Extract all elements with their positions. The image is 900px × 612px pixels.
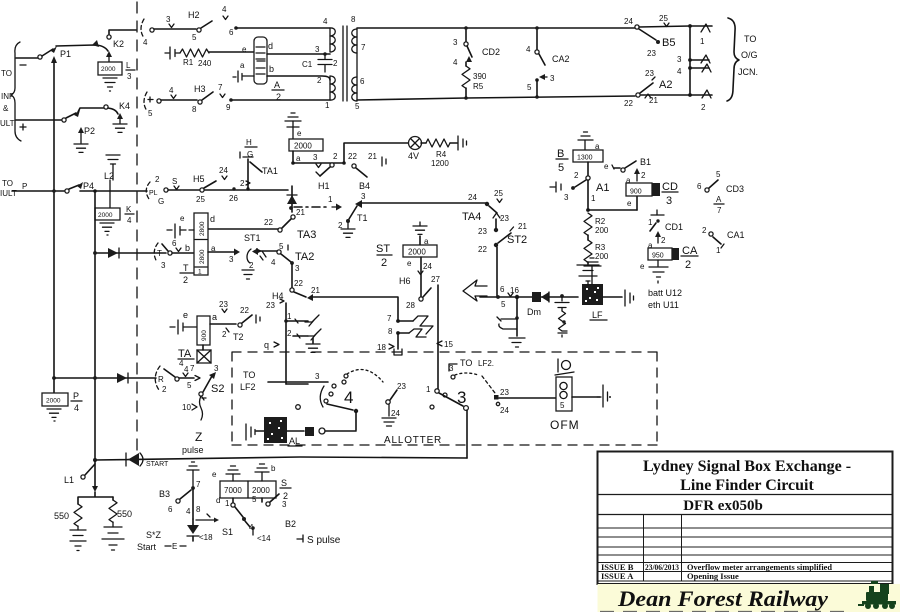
wire H2 row — [154, 28, 196, 30]
node 23 tick — [266, 299, 288, 384]
svg-text:24: 24 — [391, 409, 400, 418]
svg-text:7: 7 — [361, 43, 366, 52]
selector 4 — [296, 370, 383, 414]
svg-text:5: 5 — [192, 33, 197, 42]
resistor R4 1200 — [421, 139, 457, 168]
capacitor H1 feed — [165, 47, 180, 59]
svg-text:R4: R4 — [436, 150, 447, 159]
svg-text:H2: H2 — [188, 10, 200, 20]
svg-text:26: 26 — [229, 194, 238, 203]
wire H6 down — [437, 285, 439, 389]
svg-text:6: 6 — [172, 239, 177, 248]
contact B1 — [614, 157, 651, 172]
svg-text:a: a — [212, 312, 217, 322]
contact TA2 — [252, 242, 314, 273]
svg-text:23: 23 — [219, 300, 228, 309]
wire spring row 1 — [286, 312, 319, 326]
svg-text:240: 240 — [198, 59, 212, 68]
svg-text:4: 4 — [143, 38, 148, 47]
svg-text:5: 5 — [355, 102, 360, 111]
wire to K2 — [56, 45, 108, 51]
wire selector3 bank to 23 — [482, 376, 509, 415]
svg-text:7: 7 — [387, 314, 392, 323]
svg-text:B5: B5 — [662, 37, 675, 49]
svg-text:eth U11: eth U11 — [648, 300, 679, 310]
contact S1 below 7000 — [216, 496, 254, 532]
resistor 550 left — [54, 492, 113, 551]
svg-text:21: 21 — [296, 208, 305, 217]
svg-text:Lydney Signal Box Exchange -: Lydney Signal Box Exchange - — [643, 458, 851, 475]
svg-text:1: 1 — [591, 194, 596, 203]
contact L1 — [64, 461, 98, 492]
relay coils 7000 2000 — [220, 481, 276, 498]
wire bottom to transformer — [232, 99, 330, 101]
node H/G — [240, 138, 257, 159]
svg-text:7: 7 — [196, 480, 201, 489]
svg-text:6: 6 — [697, 182, 702, 191]
wire b row into T/2 — [172, 252, 194, 254]
svg-text:2: 2 — [381, 257, 387, 269]
svg-text:3: 3 — [550, 74, 555, 83]
contact B2 below 2000 — [251, 494, 296, 543]
svg-text:4: 4 — [222, 5, 227, 14]
svg-text:T: T — [183, 263, 189, 273]
svg-text:<14: <14 — [257, 534, 271, 543]
node L2 — [104, 155, 120, 181]
wire ST2 down — [497, 247, 519, 296]
wire H3 row — [161, 99, 197, 101]
contact H6 — [399, 257, 440, 310]
svg-text:CD2: CD2 — [482, 47, 500, 57]
svg-text:25: 25 — [196, 195, 205, 204]
wire S2 to Z — [182, 396, 203, 420]
svg-text:3: 3 — [449, 364, 454, 373]
svg-text:24: 24 — [219, 166, 228, 175]
svg-text:b: b — [271, 464, 276, 473]
svg-text:1: 1 — [287, 312, 292, 321]
svg-text:CD: CD — [662, 181, 678, 193]
svg-text:2: 2 — [183, 275, 188, 285]
svg-text:2000: 2000 — [408, 248, 426, 257]
node TO INF & ULT bracket — [0, 42, 26, 141]
svg-text:3: 3 — [453, 38, 458, 47]
selector 3 — [426, 358, 478, 410]
svg-text:K: K — [126, 205, 132, 214]
contact H2 — [166, 5, 238, 42]
wire top to transformer — [237, 27, 330, 29]
svg-text:TA3: TA3 — [297, 229, 316, 241]
relay coil B/5 1300 — [573, 150, 614, 171]
allotter dashed box — [232, 352, 657, 445]
relay coil CD/3 900 — [626, 168, 660, 210]
ground above B/5 coil — [578, 132, 600, 151]
wire O/G bus — [688, 24, 692, 97]
svg-text:CD3: CD3 — [726, 184, 744, 194]
svg-text:b: b — [185, 243, 190, 253]
svg-text:E: E — [172, 542, 177, 551]
svg-text:G: G — [247, 150, 253, 159]
diode y378 — [117, 373, 128, 383]
svg-text:22: 22 — [264, 218, 273, 227]
relay coil ST/2 2000 — [403, 245, 437, 268]
svg-text:5: 5 — [560, 401, 565, 410]
svg-text:7: 7 — [218, 83, 223, 92]
svg-text:5: 5 — [252, 495, 257, 504]
svg-text:2: 2 — [240, 179, 245, 188]
wire A1 down — [586, 180, 637, 212]
svg-text:e: e — [183, 310, 188, 320]
wire H4 row to corner — [311, 297, 398, 321]
svg-text:1200: 1200 — [431, 159, 449, 168]
svg-text:390: 390 — [473, 72, 487, 81]
svg-text:TO: TO — [744, 34, 756, 44]
contact T/3 — [154, 239, 190, 270]
svg-text:8: 8 — [192, 105, 197, 114]
svg-text:LF: LF — [592, 310, 603, 320]
svg-text:e: e — [180, 214, 185, 223]
contact B5 — [624, 14, 675, 58]
svg-text:9: 9 — [226, 103, 231, 112]
contact P1 — [38, 46, 71, 59]
svg-text:21: 21 — [311, 286, 320, 295]
wire H5 row — [168, 187, 288, 190]
svg-text:T2: T2 — [233, 332, 244, 342]
node CA/2 label — [681, 245, 698, 271]
svg-text:TO: TO — [460, 358, 472, 368]
svg-text:2000: 2000 — [294, 142, 312, 151]
svg-text:S2: S2 — [211, 383, 224, 395]
svg-text:P: P — [22, 182, 27, 191]
wire a row from T/2 — [208, 244, 240, 264]
svg-text:L1: L1 — [64, 475, 74, 485]
svg-text:1: 1 — [325, 101, 330, 110]
svg-text:B4: B4 — [359, 181, 370, 191]
contact PL G arc — [146, 175, 168, 206]
svg-text:CA: CA — [682, 245, 698, 257]
svg-text:1: 1 — [225, 499, 230, 508]
svg-text:2000: 2000 — [101, 66, 116, 73]
svg-text:22: 22 — [348, 152, 357, 161]
svg-text:H3: H3 — [194, 84, 206, 94]
svg-text:23: 23 — [397, 382, 406, 391]
wire page divider dashed — [136, 2, 138, 450]
svg-text:e: e — [212, 470, 217, 479]
svg-text:2: 2 — [249, 261, 254, 270]
svg-text:3: 3 — [666, 195, 672, 207]
diode S start — [187, 519, 213, 542]
ground stem P2 — [74, 127, 88, 152]
svg-text:23: 23 — [500, 388, 509, 397]
svg-text:5: 5 — [148, 109, 153, 118]
node Z pulse — [182, 430, 204, 455]
battery ground under R3 — [577, 265, 599, 285]
relay coil TA 900 — [170, 310, 217, 345]
relay LF — [582, 284, 607, 320]
svg-text:3: 3 — [282, 500, 287, 509]
svg-text:900: 900 — [201, 330, 208, 341]
ground under K2 coil — [103, 78, 117, 91]
svg-text:550: 550 — [117, 509, 132, 519]
svg-text:CA2: CA2 — [552, 54, 570, 64]
svg-text:8: 8 — [351, 15, 356, 24]
relay T/2 — [180, 213, 215, 276]
capacitor A/2 a — [233, 71, 254, 82]
contact P4 — [65, 181, 94, 193]
wire TA2 down to H4 — [292, 264, 303, 288]
svg-text:H5: H5 — [193, 174, 205, 184]
svg-text:3: 3 — [166, 15, 171, 24]
node S/2 label — [280, 478, 291, 501]
svg-text:7: 7 — [717, 206, 722, 215]
svg-text:d: d — [268, 41, 273, 51]
svg-text:2: 2 — [574, 171, 579, 180]
svg-text:a: a — [240, 61, 245, 70]
wire P2 to K4 — [78, 108, 104, 112]
contact H5 — [172, 166, 250, 204]
contact TA4 — [462, 189, 509, 223]
svg-text:5: 5 — [501, 300, 506, 309]
wire spring 8 row — [388, 327, 426, 337]
meter OFM — [550, 377, 580, 432]
svg-text:S: S — [281, 478, 287, 488]
contact K4 — [104, 101, 130, 132]
contact TA1 — [243, 157, 278, 189]
svg-text:A: A — [716, 195, 722, 204]
thermal TA element — [178, 345, 211, 374]
svg-text:2: 2 — [702, 226, 707, 235]
svg-text:K4: K4 — [119, 101, 130, 111]
wire P2 row — [16, 119, 62, 121]
wire spring row 2 — [287, 329, 321, 352]
svg-text:28: 28 — [406, 301, 415, 310]
svg-text:21: 21 — [518, 222, 527, 231]
node K/4 label — [125, 205, 134, 225]
svg-text:15: 15 — [444, 340, 453, 349]
svg-text:e: e — [604, 162, 609, 171]
svg-text:S pulse: S pulse — [307, 535, 341, 546]
svg-text:2: 2 — [155, 175, 160, 184]
jack arrow symbol — [463, 280, 487, 301]
svg-text:4: 4 — [186, 507, 191, 516]
node S*Z start — [137, 530, 186, 552]
svg-text:2: 2 — [661, 236, 666, 245]
svg-text:&: & — [3, 104, 9, 113]
svg-text:3: 3 — [214, 364, 219, 373]
svg-text:3: 3 — [229, 255, 234, 264]
svg-text:ALLOTTER: ALLOTTER — [384, 435, 442, 446]
svg-text:R3: R3 — [595, 243, 606, 252]
svg-text:1: 1 — [328, 195, 333, 204]
svg-text:24: 24 — [423, 262, 432, 271]
svg-text:22: 22 — [478, 245, 487, 254]
wire d row T/2 to TA3 — [208, 228, 278, 230]
contact ST1 lower — [242, 248, 266, 279]
svg-text:e: e — [297, 129, 302, 138]
svg-text:P1: P1 — [60, 49, 71, 59]
wire to selector4 — [286, 383, 308, 385]
wire H/G coil stem — [291, 151, 346, 168]
wire d row to C1 — [267, 52, 330, 56]
wire dash to T1 — [289, 195, 342, 211]
svg-text:INF: INF — [1, 92, 14, 101]
svg-text:5: 5 — [558, 162, 564, 174]
svg-text:21: 21 — [368, 152, 377, 161]
svg-text:23/06/2013: 23/06/2013 — [645, 562, 679, 572]
svg-text:AL: AL — [289, 436, 300, 446]
wire meter row — [480, 293, 578, 309]
node 15 — [437, 340, 453, 349]
svg-text:1: 1 — [700, 37, 705, 46]
svg-text:pulse: pulse — [182, 445, 204, 455]
node A/2 label — [272, 80, 284, 102]
svg-text:e: e — [627, 199, 632, 208]
svg-text:P4: P4 — [83, 181, 94, 191]
svg-text:L2: L2 — [104, 171, 114, 181]
svg-text:27: 27 — [431, 275, 440, 284]
node S pulse — [297, 535, 341, 546]
svg-text:2: 2 — [685, 259, 691, 271]
svg-text:2: 2 — [317, 76, 322, 85]
contact CD2 — [453, 30, 500, 67]
svg-text:23: 23 — [645, 69, 654, 78]
svg-text:b: b — [269, 64, 274, 74]
svg-text:B3: B3 — [159, 489, 170, 499]
svg-text:22: 22 — [294, 279, 303, 288]
wire left vertical bus with arrow — [51, 56, 57, 393]
svg-text:23: 23 — [478, 227, 487, 236]
svg-text:B2: B2 — [285, 519, 296, 529]
resistor R5 390 — [462, 62, 487, 98]
svg-text:16: 16 — [510, 286, 519, 295]
svg-text:24: 24 — [468, 193, 477, 202]
svg-text:23: 23 — [500, 214, 509, 223]
svg-text:900: 900 — [630, 189, 642, 196]
contact A1 — [550, 162, 609, 202]
banner Dean Forest Railway — [598, 584, 900, 612]
node L/3 — [126, 61, 135, 81]
svg-text:10: 10 — [182, 403, 191, 412]
battery after R4 — [458, 136, 467, 150]
relay coil K/4 2000 — [95, 180, 120, 235]
node LO — [555, 359, 574, 375]
svg-text:ISSUE A: ISSUE A — [601, 571, 634, 581]
svg-text:ST: ST — [376, 243, 390, 255]
svg-text:950: 950 — [652, 253, 664, 260]
svg-text:2000: 2000 — [252, 486, 270, 495]
svg-text:8: 8 — [388, 327, 393, 336]
svg-text:CA1: CA1 — [727, 230, 745, 240]
svg-text:A1: A1 — [596, 182, 609, 194]
node T/2 label — [180, 263, 193, 285]
svg-text:2: 2 — [333, 59, 338, 68]
contact S2 — [199, 364, 225, 400]
svg-text:S*Z: S*Z — [146, 530, 162, 540]
svg-text:6: 6 — [360, 77, 365, 86]
svg-text:ULT: ULT — [0, 119, 15, 128]
svg-text:23: 23 — [647, 49, 656, 58]
svg-text:23: 23 — [266, 301, 275, 310]
svg-text:B1: B1 — [640, 157, 651, 167]
svg-text:d: d — [210, 214, 215, 224]
transformer core — [343, 26, 347, 101]
svg-text:200: 200 — [595, 252, 609, 261]
contact B3 — [159, 462, 201, 514]
svg-text:3: 3 — [295, 264, 300, 273]
svg-text:TA2: TA2 — [295, 251, 314, 263]
contact H2 arc — [141, 19, 154, 47]
svg-text:<18: <18 — [199, 533, 213, 542]
svg-text:Opening Issue: Opening Issue — [687, 571, 739, 581]
transformer T primary — [315, 17, 335, 110]
svg-text:2800: 2800 — [199, 249, 206, 264]
svg-text:4: 4 — [169, 86, 174, 95]
wire START row — [93, 457, 467, 462]
svg-text:3: 3 — [315, 372, 320, 381]
battery 550 right — [102, 497, 132, 550]
contact R/2 arc — [155, 359, 200, 394]
svg-text:8: 8 — [196, 505, 201, 514]
contact selector4 23 — [382, 382, 406, 426]
diode START — [126, 453, 169, 468]
contact B4 — [348, 152, 386, 191]
svg-text:ST1: ST1 — [244, 233, 261, 243]
svg-text:2: 2 — [333, 152, 338, 161]
title block — [598, 452, 894, 585]
svg-text:A2: A2 — [659, 79, 672, 91]
svg-text:24: 24 — [500, 406, 509, 415]
rectifier Dm — [527, 292, 549, 317]
svg-text:1: 1 — [648, 218, 653, 227]
lamp 4V — [333, 137, 422, 164]
contact CA2 — [526, 30, 570, 96]
relay AL — [246, 417, 302, 446]
contact P2 — [62, 110, 95, 136]
svg-text:LF2.: LF2. — [478, 359, 494, 368]
svg-text:2: 2 — [641, 171, 646, 180]
svg-text:7000: 7000 — [224, 486, 242, 495]
svg-text:25: 25 — [494, 189, 503, 198]
svg-text:3: 3 — [677, 55, 682, 64]
svg-text:1: 1 — [426, 385, 431, 394]
wire bottom to O/G bus — [641, 90, 712, 112]
wire b row — [267, 76, 330, 80]
svg-text:3: 3 — [313, 153, 318, 162]
svg-text:2800: 2800 — [199, 221, 206, 236]
svg-text:2: 2 — [222, 330, 227, 339]
node TO LF2 left — [240, 370, 328, 392]
svg-text:18: 18 — [377, 343, 386, 352]
svg-text:e: e — [407, 259, 412, 268]
resistor R1 240 — [180, 49, 254, 68]
svg-text:25: 25 — [659, 14, 668, 23]
svg-text:3: 3 — [161, 261, 166, 270]
svg-text:d: d — [216, 496, 220, 505]
svg-text:R: R — [158, 375, 164, 384]
wire top to O/G bus — [639, 26, 690, 27]
ground above 2000 — [255, 464, 276, 481]
wire selector4 wiper down — [355, 412, 357, 430]
ground above LF — [584, 258, 601, 284]
capacitor resistor chain — [555, 294, 569, 337]
svg-text:a: a — [296, 154, 301, 163]
svg-text:22: 22 — [624, 99, 633, 108]
svg-text:2: 2 — [701, 103, 706, 112]
svg-text:2: 2 — [162, 385, 167, 394]
svg-text:6: 6 — [168, 505, 173, 514]
svg-text:q: q — [264, 340, 269, 350]
svg-text:200: 200 — [595, 226, 609, 235]
svg-text:S: S — [172, 177, 177, 186]
